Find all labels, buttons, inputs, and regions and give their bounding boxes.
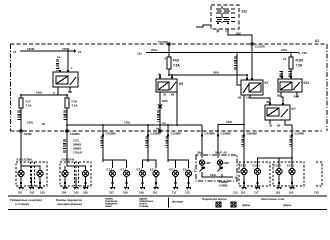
svg-text:FU20: FU20 bbox=[296, 59, 304, 63]
caption column 7 bbox=[242, 197, 292, 207]
ground W111 bbox=[172, 182, 178, 195]
svg-text:120: 120 bbox=[314, 191, 319, 195]
svg-text:1/85/8M: 1/85/8M bbox=[247, 131, 258, 135]
svg-text:140L: 140L bbox=[226, 120, 233, 124]
switch S12 (steering column switch, dashed enclosure) bbox=[211, 5, 239, 29]
connector C4 on top border bbox=[251, 43, 265, 78]
lamp E2.2 bbox=[150, 168, 159, 183]
wire 170L bus bbox=[66, 121, 202, 126]
lamp E101 bbox=[18, 171, 24, 183]
spare pocket (dashed fragment right) bbox=[316, 162, 322, 186]
ground W104 bbox=[62, 182, 68, 195]
relay K1 bbox=[53, 66, 78, 95]
svg-text:102: 102 bbox=[30, 191, 35, 195]
svg-text:E11.2: E11.2 bbox=[253, 164, 261, 168]
svg-text:200L: 200L bbox=[151, 48, 158, 52]
svg-text:C10/8K: C10/8K bbox=[295, 131, 306, 135]
svg-text:E11.1: E11.1 bbox=[239, 164, 247, 168]
svg-text:30uP_A2: 30uP_A2 bbox=[215, 151, 227, 155]
legend table rules bbox=[8, 196, 327, 210]
lamp E102 bbox=[37, 171, 43, 183]
svg-text:107: 107 bbox=[109, 191, 114, 195]
lamp E1.2 bbox=[121, 168, 130, 183]
wire 140L bridge bbox=[218, 120, 245, 131]
svg-text:85: 85 bbox=[277, 124, 281, 128]
svg-text:7.5A: 7.5A bbox=[296, 64, 303, 68]
svg-text:85: 85 bbox=[277, 94, 281, 98]
instrument illumination box (dash-dot) bbox=[196, 155, 237, 181]
relay K3 bbox=[277, 76, 309, 105]
node annotation block right of C2 bbox=[73, 139, 82, 155]
caption column 6 bbox=[202, 197, 236, 207]
lamp pair E2.1/E2.2 feed bbox=[143, 160, 157, 168]
svg-text:111: 111 bbox=[172, 191, 177, 195]
svg-text:C2/12R: C2/12R bbox=[255, 45, 265, 49]
svg-text:E101-E306L: E101-E306L bbox=[17, 158, 33, 162]
connector pass-through C2 at x67 bbox=[63, 130, 80, 163]
svg-text:K7: K7 bbox=[265, 81, 269, 85]
relay K2 output wires bbox=[244, 95, 270, 131]
relay K2 bbox=[238, 74, 269, 99]
svg-text:9a: 9a bbox=[156, 127, 160, 131]
lamp group E50-E54 (left box 2) bbox=[60, 158, 91, 187]
ground W118 bbox=[276, 182, 282, 195]
ground W110 bbox=[153, 182, 159, 195]
ground W108 bbox=[123, 182, 129, 195]
svg-text:100L: 100L bbox=[210, 173, 217, 177]
lamp E12.1 bbox=[274, 164, 283, 183]
svg-text:1a: 1a bbox=[57, 55, 61, 59]
wire 900L drop to relay K2 coil bbox=[234, 52, 241, 85]
svg-text:117: 117 bbox=[254, 191, 259, 195]
svg-text:85: 85 bbox=[171, 93, 175, 97]
tail lamp box right 1 (dashed) bbox=[239, 162, 270, 186]
ground W105 bbox=[74, 177, 80, 195]
svg-text:-11: -11 bbox=[234, 176, 238, 180]
caption column 4 bbox=[139, 198, 154, 209]
wire into S12 from left bbox=[196, 25, 211, 27]
fuse F17 7.5A bbox=[18, 95, 32, 131]
lamp group E101-E106 (left box 1) bbox=[16, 158, 47, 187]
caption column 3 bbox=[105, 198, 118, 209]
svg-text:C42/8M: C42/8M bbox=[70, 132, 81, 136]
ground W117 bbox=[254, 182, 260, 195]
svg-text:Z1: Z1 bbox=[78, 50, 82, 54]
svg-text:1/10M: 1/10M bbox=[24, 132, 33, 136]
svg-text:H27: H27 bbox=[206, 161, 212, 165]
svg-text:109: 109 bbox=[139, 191, 144, 195]
svg-text:Хвостовые огни: Хвостовые огни bbox=[261, 197, 285, 201]
svg-text:100L: 100L bbox=[27, 121, 34, 125]
ground W101 bbox=[18, 182, 24, 195]
ground W106 bbox=[83, 182, 88, 195]
svg-text:170L/8: 170L/8 bbox=[73, 151, 82, 155]
svg-text:115: 115 bbox=[233, 191, 238, 195]
lamp E54 bbox=[83, 171, 89, 183]
lamp E11.1 bbox=[239, 164, 247, 183]
svg-text:C42/8M: C42/8M bbox=[106, 131, 117, 135]
svg-text:119: 119 bbox=[289, 191, 294, 195]
svg-text:7.5A: 7.5A bbox=[173, 64, 180, 68]
ground W107 bbox=[109, 182, 115, 195]
border crossing C9 x202 bbox=[197, 125, 215, 158]
fuse FU20 7.5A bbox=[280, 52, 304, 77]
svg-text:D+: D+ bbox=[163, 121, 167, 125]
lamp E2.1 bbox=[137, 168, 146, 183]
svg-text:K11: K11 bbox=[304, 81, 310, 85]
lamp H27 bbox=[199, 160, 211, 172]
svg-text:30uL: 30uL bbox=[197, 151, 204, 155]
svg-text:8/25: 8/25 bbox=[162, 99, 168, 103]
svg-text:15: 15 bbox=[13, 50, 17, 54]
svg-text:108: 108 bbox=[123, 191, 128, 195]
svg-text:106: 106 bbox=[83, 191, 88, 195]
caption column 2 bbox=[56, 198, 82, 206]
ground W102 bbox=[29, 177, 35, 195]
svg-text:101: 101 bbox=[18, 191, 23, 195]
connector pass-through C1 at x21 bbox=[20, 130, 32, 163]
svg-text:10: 10 bbox=[283, 57, 287, 61]
border crossing C8 x168 bbox=[165, 125, 181, 162]
ground W119 bbox=[289, 182, 295, 195]
svg-text:200L: 200L bbox=[213, 71, 220, 75]
svg-text:112: 112 bbox=[185, 191, 190, 195]
ground W112 bbox=[185, 182, 191, 195]
svg-text:Подсветка щитка: Подсветка щитка bbox=[202, 197, 227, 201]
svg-text:116: 116 bbox=[241, 191, 246, 195]
svg-text:170L: 170L bbox=[124, 121, 131, 125]
svg-text:S12: S12 bbox=[242, 10, 248, 14]
border crossing C5 x103 bbox=[100, 125, 116, 162]
svg-text:7.5A: 7.5A bbox=[72, 104, 78, 108]
svg-text:E50-E540: E50-E540 bbox=[62, 158, 75, 162]
svg-text:L: L bbox=[217, 30, 219, 34]
svg-text:знака: знака bbox=[105, 205, 112, 208]
wire node to relay K1 bbox=[56, 51, 68, 72]
svg-text:118: 118 bbox=[276, 191, 281, 195]
svg-text:H28: H28 bbox=[224, 161, 230, 165]
lamp pair E6.1/E6.2 feed bbox=[168, 160, 189, 168]
lamp E6.2 bbox=[183, 168, 192, 183]
svg-text:FU9: FU9 bbox=[173, 59, 179, 63]
lamp E50 bbox=[62, 171, 68, 183]
svg-text:C10/8M: C10/8M bbox=[221, 131, 232, 135]
svg-text:передние(левые): передние(левые) bbox=[57, 202, 82, 206]
fuse FU9 7.5A bbox=[165, 57, 181, 76]
svg-text:1000L: 1000L bbox=[27, 47, 35, 51]
svg-text:фары: фары bbox=[283, 203, 292, 207]
lamp E12.2 bbox=[287, 164, 295, 183]
svg-text:E12.2: E12.2 bbox=[287, 164, 295, 168]
lamp E11.2 bbox=[253, 164, 261, 183]
wire label 100L -30 bbox=[27, 121, 46, 127]
wire 100L between fuse tops bbox=[20, 91, 68, 96]
svg-text:104: 104 bbox=[62, 191, 67, 195]
svg-text:30L: 30L bbox=[266, 100, 271, 104]
connector C7 x162 (D+) bbox=[156, 127, 161, 133]
svg-text:фары: фары bbox=[242, 203, 251, 207]
svg-text:86: 86 bbox=[238, 96, 242, 100]
wire S12 pin to node, label 90Z bbox=[217, 29, 253, 44]
svg-text:-30: -30 bbox=[41, 122, 46, 126]
svg-text:C1/12R: C1/12R bbox=[158, 40, 168, 44]
svg-text:90Z: 90Z bbox=[236, 32, 241, 36]
relay K9 bbox=[156, 73, 183, 132]
svg-text:E12.1: E12.1 bbox=[274, 164, 282, 168]
lamp H28 bbox=[217, 160, 229, 172]
svg-text:30M: 30M bbox=[294, 95, 300, 99]
svg-text:F: F bbox=[226, 30, 228, 34]
svg-text:14a: 14a bbox=[246, 96, 251, 100]
ground W103 bbox=[38, 182, 46, 195]
border crossing C10 x218 bbox=[215, 131, 231, 158]
fuse F18 7.5A bbox=[64, 95, 78, 131]
svg-text:30: 30 bbox=[269, 124, 273, 128]
svg-text:..2: ..2 bbox=[192, 169, 196, 173]
svg-text:и стоянка: и стоянка bbox=[15, 202, 29, 206]
svg-text:стоянка: стоянка bbox=[139, 205, 149, 208]
relay K4 bbox=[265, 100, 296, 131]
connector separation symbol on D+ wire bbox=[157, 99, 168, 125]
border crossing C11 x244 bbox=[241, 131, 257, 161]
svg-text:K?: K? bbox=[292, 107, 296, 111]
tail lamp feed wires bbox=[244, 157, 293, 168]
border crossing C6 x148 bbox=[145, 125, 161, 162]
svg-text:15u: 15u bbox=[137, 52, 142, 56]
svg-text:103: 103 bbox=[40, 191, 45, 195]
svg-text:7.5A: 7.5A bbox=[26, 104, 32, 108]
tail lamp box right 2 (dashed) bbox=[273, 162, 304, 186]
svg-text:1000L: 1000L bbox=[62, 47, 70, 51]
border crossing C12 x292 bbox=[289, 131, 305, 158]
svg-text:K9: K9 bbox=[179, 82, 183, 86]
wire 15u 200L to fuse FU9 bbox=[137, 48, 307, 56]
svg-text:фонари: фонари bbox=[172, 200, 183, 204]
lamp pair E1.1/E1.2 feed bbox=[103, 160, 127, 168]
illumination return wire 100L bbox=[192, 169, 238, 180]
svg-text:106: 106 bbox=[302, 51, 307, 55]
svg-text:30: 30 bbox=[163, 93, 167, 97]
lamp E1.1 bbox=[107, 168, 116, 183]
svg-text:105: 105 bbox=[74, 191, 79, 195]
module A1 boundary (dash-dot box) bbox=[11, 44, 328, 131]
caption column 1 bbox=[10, 198, 42, 206]
svg-text:C42/8M: C42/8M bbox=[205, 131, 216, 135]
terminal 15 feed wire, labels 1000L / Z1 bbox=[13, 47, 82, 54]
lamp E6.1 bbox=[170, 168, 179, 183]
wire 200L bus y75 bbox=[168, 71, 247, 76]
svg-text:110: 110 bbox=[153, 191, 158, 195]
connector C3 on top border bbox=[158, 40, 170, 57]
svg-text:240L: 240L bbox=[281, 48, 288, 52]
ground W109 bbox=[139, 182, 145, 195]
svg-text:100L: 100L bbox=[36, 91, 43, 95]
svg-text:C4/8M: C4/8M bbox=[219, 184, 228, 188]
svg-text:C10/8M: C10/8M bbox=[171, 131, 182, 135]
svg-text:A1: A1 bbox=[315, 39, 319, 43]
ground W116 bbox=[241, 182, 247, 195]
annotation below illumination box bbox=[219, 180, 228, 188]
